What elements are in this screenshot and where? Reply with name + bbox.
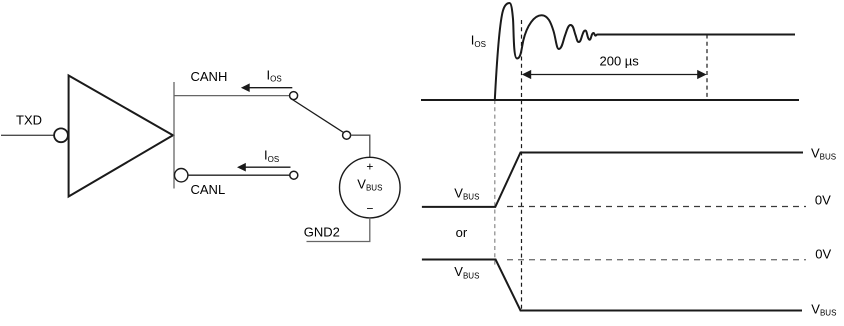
svg-text:TXD: TXD xyxy=(16,112,42,127)
svg-text:−: − xyxy=(366,202,373,216)
svg-text:IOS: IOS xyxy=(267,68,282,84)
svg-text:VBUS: VBUS xyxy=(454,185,479,201)
svg-text:+: + xyxy=(366,160,373,174)
svg-text:VBUS: VBUS xyxy=(454,264,479,280)
svg-text:GND2: GND2 xyxy=(304,224,340,239)
svg-text:VBUS: VBUS xyxy=(811,301,836,317)
svg-text:CANL: CANL xyxy=(191,182,226,197)
svg-text:IOS: IOS xyxy=(264,148,279,164)
svg-text:IOS: IOS xyxy=(471,33,486,49)
svg-text:0V: 0V xyxy=(815,246,831,261)
svg-text:200 µs: 200 µs xyxy=(600,53,640,68)
svg-text:CANH: CANH xyxy=(191,69,228,84)
svg-text:or: or xyxy=(456,225,468,240)
svg-text:0V: 0V xyxy=(815,193,831,208)
svg-text:VBUS: VBUS xyxy=(811,145,836,161)
